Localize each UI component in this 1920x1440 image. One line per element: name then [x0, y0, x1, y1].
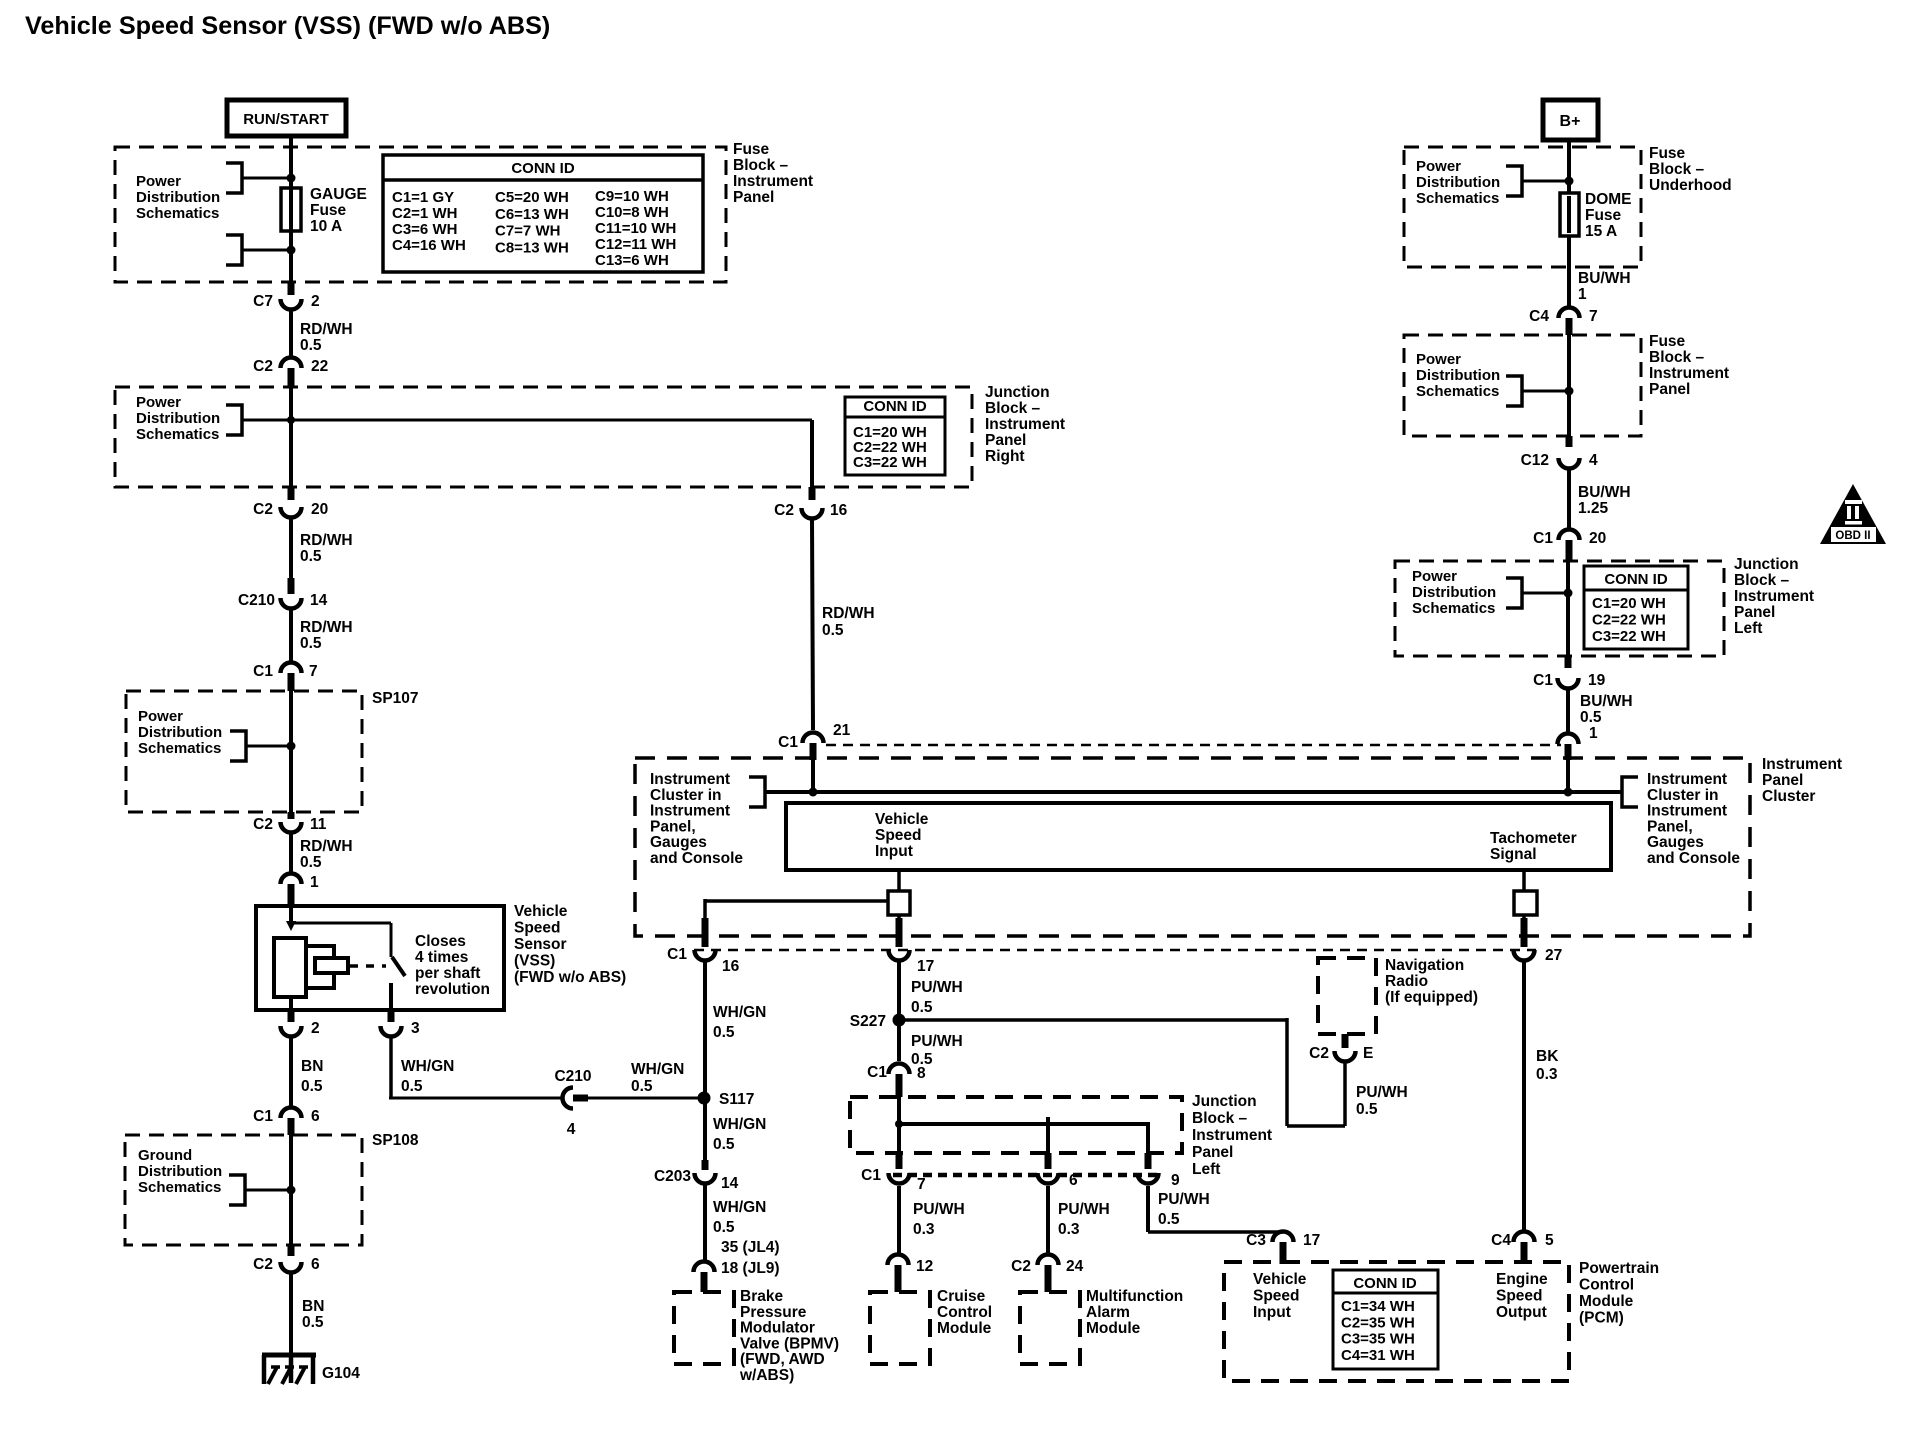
svg-text:RD/WH: RD/WH — [822, 605, 875, 622]
brake pressure modulator valve dashed box — [674, 1292, 734, 1364]
svg-text:C1=20 WH: C1=20 WH — [1592, 595, 1666, 612]
svg-text:Distribution: Distribution — [136, 410, 220, 427]
connector C2 pin 20 — [288, 487, 295, 500]
svg-text:C1=34 WH: C1=34 WH — [1341, 1298, 1415, 1315]
svg-text:Vehicle: Vehicle — [875, 811, 929, 828]
svg-text:GAUGE: GAUGE — [310, 186, 367, 203]
svg-text:and Console: and Console — [1647, 850, 1740, 867]
svg-text:0.5: 0.5 — [1158, 1211, 1180, 1228]
svg-text:C3=35 WH: C3=35 WH — [1341, 1331, 1415, 1348]
svg-text:4: 4 — [1589, 452, 1598, 469]
svg-text:Speed: Speed — [1496, 1288, 1543, 1305]
svg-text:27: 27 — [1545, 947, 1562, 964]
bracket: SP107 tap — [230, 731, 246, 761]
svg-text:Cluster in: Cluster in — [1647, 787, 1718, 804]
svg-text:0.5: 0.5 — [300, 548, 322, 565]
wire: cluster to C1-16 — [703, 899, 707, 920]
cluster internal bus — [765, 790, 1622, 794]
svg-text:Brake: Brake — [740, 1288, 783, 1305]
wire: C2-11 to VSS pin 1, RD/WH 0.5 — [289, 834, 293, 872]
svg-text:0.5: 0.5 — [300, 854, 322, 871]
svg-text:Distribution: Distribution — [1412, 584, 1496, 601]
svg-text:CONN ID: CONN ID — [1604, 571, 1668, 588]
svg-text:Gauges: Gauges — [1647, 834, 1704, 851]
wire: through JB left — [1566, 561, 1570, 656]
svg-text:Cluster: Cluster — [1762, 788, 1815, 805]
svg-text:Modulator: Modulator — [740, 1320, 815, 1337]
bracket: power distribution top tap — [226, 163, 242, 193]
svg-text:C12=11 WH: C12=11 WH — [595, 236, 676, 253]
svg-text:BN: BN — [302, 1298, 324, 1315]
bracket: power distribution bottom tap — [226, 235, 242, 265]
svg-text:Junction: Junction — [985, 384, 1050, 401]
wire: C210-14 to C1-7, RD/WH 0.5 — [289, 610, 293, 661]
svg-text:Distribution: Distribution — [136, 189, 220, 206]
sensor body — [274, 938, 306, 997]
svg-text:Module: Module — [1579, 1293, 1634, 1310]
fuse GAUGE 10 A — [281, 188, 301, 231]
svg-text:Instrument: Instrument — [1647, 803, 1727, 820]
svg-text:Radio: Radio — [1385, 973, 1428, 990]
CONN ID table (fuse block IP) — [383, 155, 703, 272]
svg-text:C1: C1 — [253, 1108, 273, 1125]
svg-text:BN: BN — [301, 1058, 323, 1075]
svg-text:18 (JL9): 18 (JL9) — [721, 1260, 780, 1277]
svg-text:1.25: 1.25 — [1578, 500, 1609, 517]
svg-text:G104: G104 — [322, 1365, 360, 1382]
svg-text:C6=13 WH: C6=13 WH — [495, 206, 569, 223]
svg-text:2: 2 — [311, 293, 320, 310]
navigation radio dashed box — [1318, 958, 1376, 1034]
svg-text:Sensor: Sensor — [514, 936, 567, 953]
svg-text:Cruise: Cruise — [937, 1288, 986, 1305]
svg-text:E: E — [1363, 1045, 1373, 1062]
svg-text:C8=13 WH: C8=13 WH — [495, 239, 569, 256]
svg-text:PU/WH: PU/WH — [1356, 1084, 1408, 1101]
connector cruise pin 12 — [888, 1255, 909, 1266]
wire: JB right internal feed to C2-16 branch — [242, 419, 812, 422]
svg-text:C4=16 WH: C4=16 WH — [392, 237, 466, 254]
svg-text:Instrument: Instrument — [733, 173, 813, 190]
svg-text:35 (JL4): 35 (JL4) — [721, 1239, 780, 1256]
wire: VSS internal feed with arrow — [289, 908, 293, 922]
wire: S227 branch to navigation radio — [899, 1018, 1287, 1022]
svg-text:Navigation: Navigation — [1385, 957, 1464, 974]
svg-text:Vehicle: Vehicle — [1253, 1271, 1307, 1288]
svg-text:DOME: DOME — [1585, 191, 1632, 208]
svg-text:Panel: Panel — [733, 189, 774, 206]
svg-text:WH/GN: WH/GN — [713, 1116, 766, 1133]
svg-text:C10=8 WH: C10=8 WH — [595, 204, 669, 221]
wire: through JB right box (left leg) — [289, 387, 293, 487]
wire: C2-16 to C1-21, RD/WH 0.5 — [812, 520, 813, 730]
svg-text:C1: C1 — [778, 734, 798, 751]
svg-text:7: 7 — [309, 663, 318, 680]
svg-text:C7=7 WH: C7=7 WH — [495, 223, 560, 240]
svg-text:Powertrain: Powertrain — [1579, 1260, 1659, 1277]
svg-text:Closes: Closes — [415, 933, 466, 950]
svg-text:Panel: Panel — [1762, 772, 1803, 789]
svg-text:0.5: 0.5 — [713, 1219, 735, 1236]
svg-text:7: 7 — [1589, 308, 1598, 325]
svg-text:Schematics: Schematics — [136, 205, 219, 222]
svg-text:C1: C1 — [867, 1064, 887, 1081]
svg-text:1: 1 — [1578, 286, 1587, 303]
svg-text:PU/WH: PU/WH — [1158, 1191, 1210, 1208]
svg-text:0.5: 0.5 — [301, 1078, 323, 1095]
svg-text:S227: S227 — [850, 1013, 886, 1030]
bracket: SP108 tap — [229, 1175, 245, 1205]
svg-text:B+: B+ — [1560, 113, 1581, 130]
svg-text:10 A: 10 A — [310, 218, 342, 235]
svg-text:Panel: Panel — [1649, 381, 1690, 398]
connector VSS pin 3 — [388, 1010, 395, 1022]
svg-text:PU/WH: PU/WH — [911, 1033, 963, 1050]
wire: 17 to S227, PU/WH 0.5 — [897, 962, 901, 1014]
wire: DOME fuse to C4-7, BU/WH 1 — [1567, 267, 1571, 306]
svg-text:CONN ID: CONN ID — [1353, 1275, 1417, 1292]
svg-text:C4: C4 — [1529, 308, 1549, 325]
svg-text:C5=20 WH: C5=20 WH — [495, 189, 569, 206]
connector C1 pin 6 — [281, 1108, 302, 1119]
connector C2 pin 16 — [809, 487, 816, 500]
wire: C12-4 to C1-20, BU/WH 1.25 — [1567, 470, 1571, 528]
connector C1 pin 7 (JB) — [896, 1153, 903, 1169]
wire: 27 to PCM C4-5, BK 0.3 — [1522, 962, 1526, 1230]
terminal box: vehicle speed input — [897, 870, 901, 891]
svg-text:0.5: 0.5 — [300, 635, 322, 652]
svg-text:0.3: 0.3 — [1058, 1221, 1080, 1238]
svg-text:Schematics: Schematics — [1416, 190, 1499, 207]
svg-text:Distribution: Distribution — [1416, 174, 1500, 191]
svg-text:Left: Left — [1192, 1161, 1220, 1178]
svg-text:C2: C2 — [253, 1256, 273, 1273]
junction block - instrument panel left dashed box (right column) — [1395, 561, 1724, 656]
wire: C2-6 to ground, BN 0.5 — [289, 1274, 293, 1357]
svg-text:Input: Input — [1253, 1304, 1291, 1321]
wire: through underhood box — [1567, 150, 1571, 267]
svg-text:Speed: Speed — [875, 827, 922, 844]
svg-text:C2: C2 — [1011, 1258, 1031, 1275]
connector C4 pin 7 — [1559, 308, 1580, 319]
svg-text:Instrument: Instrument — [1734, 588, 1814, 605]
connector C7 pin 2 — [288, 282, 295, 295]
svg-text:(PCM): (PCM) — [1579, 1310, 1624, 1327]
junction: bottom tap dot — [287, 246, 296, 255]
wire: C2-20 to C210-14, RD/WH 0.5 — [289, 519, 293, 578]
bracket: cluster left — [749, 777, 765, 807]
svg-text:0.5: 0.5 — [822, 622, 844, 639]
switch blade — [392, 957, 405, 976]
svg-text:Power: Power — [1412, 568, 1457, 585]
svg-text:revolution: revolution — [415, 981, 490, 998]
svg-text:0.5: 0.5 — [302, 1314, 324, 1331]
mechanical link dashed — [350, 964, 386, 968]
svg-text:Block –: Block – — [1734, 572, 1790, 589]
wire: C210-4 to S117, WH/GN 0.5 — [588, 1097, 704, 1100]
bracket: fuse block IP right tap — [1506, 376, 1522, 406]
svg-text:per shaft: per shaft — [415, 965, 480, 982]
svg-text:Power: Power — [1416, 158, 1461, 175]
svg-text:Left: Left — [1734, 620, 1762, 637]
svg-text:(If equipped): (If equipped) — [1385, 989, 1478, 1006]
svg-text:Tachometer: Tachometer — [1490, 830, 1577, 847]
svg-text:22: 22 — [311, 358, 328, 375]
svg-text:C1: C1 — [667, 946, 687, 963]
svg-text:20: 20 — [1589, 530, 1606, 547]
svg-text:12: 12 — [916, 1258, 933, 1275]
svg-text:Valve (BPMV): Valve (BPMV) — [740, 1335, 839, 1352]
svg-text:C2: C2 — [253, 358, 273, 375]
svg-text:Instrument: Instrument — [1647, 771, 1727, 788]
svg-text:0.3: 0.3 — [1536, 1066, 1558, 1083]
svg-text:Block –: Block – — [985, 400, 1041, 417]
svg-text:Output: Output — [1496, 1304, 1547, 1321]
svg-text:Panel: Panel — [985, 432, 1026, 449]
svg-text:1: 1 — [1589, 725, 1598, 742]
junction block - instrument panel right dashed box — [115, 387, 972, 487]
wire: VSS pin 3 down and right, WH/GN 0.5 — [389, 1038, 393, 1098]
svg-text:C2=22 WH: C2=22 WH — [1592, 612, 1666, 629]
svg-text:Gauges: Gauges — [650, 834, 707, 851]
svg-text:Distribution: Distribution — [138, 724, 222, 741]
wire: C7-2 to C2-22, RD/WH 0.5 — [289, 311, 293, 356]
bracket: JB right power tap — [226, 405, 242, 435]
bracket: underhood tap — [1506, 166, 1522, 196]
svg-text:6: 6 — [1069, 1172, 1078, 1189]
svg-text:S117: S117 — [719, 1091, 754, 1108]
fuse block - instrument panel dashed box — [115, 147, 726, 282]
svg-text:0.5: 0.5 — [401, 1078, 423, 1095]
splice S227 — [893, 1014, 906, 1027]
connector VSS pin 2 — [288, 1010, 295, 1022]
svg-text:Instrument: Instrument — [985, 416, 1065, 433]
connector JB pin 9 — [1145, 1153, 1152, 1169]
svg-text:11: 11 — [310, 816, 327, 833]
junction: top tap dot — [287, 174, 296, 183]
connector C3 pin 17 — [1273, 1232, 1294, 1243]
svg-text:4 times: 4 times — [415, 949, 468, 966]
svg-text:Schematics: Schematics — [1412, 600, 1495, 617]
svg-text:0.5: 0.5 — [1356, 1101, 1378, 1118]
splice pack SP108 dashed box — [125, 1135, 362, 1245]
svg-text:17: 17 — [917, 958, 934, 975]
svg-text:0.5: 0.5 — [713, 1024, 735, 1041]
svg-text:C13=6 WH: C13=6 WH — [595, 252, 669, 269]
bracket: JB left tap — [1506, 578, 1522, 608]
svg-text:C2=35 WH: C2=35 WH — [1341, 1314, 1415, 1331]
svg-text:20: 20 — [311, 501, 328, 518]
svg-text:6: 6 — [311, 1256, 320, 1273]
svg-text:Block –: Block – — [733, 157, 789, 174]
svg-text:Block –: Block – — [1649, 349, 1705, 366]
CONN ID table (JB left) — [1584, 566, 1688, 649]
svg-text:C3=22 WH: C3=22 WH — [853, 454, 927, 471]
svg-text:RD/WH: RD/WH — [300, 532, 353, 549]
wire: JB internal bus — [897, 1097, 901, 1153]
multifunction alarm module dashed box — [1020, 1292, 1080, 1364]
svg-text:0.5: 0.5 — [713, 1136, 735, 1153]
connector C1 pin 16 — [702, 918, 709, 947]
svg-text:Pressure: Pressure — [740, 1304, 807, 1321]
ground G104 — [262, 1353, 316, 1358]
svg-text:Instrument: Instrument — [650, 771, 730, 788]
svg-text:C2=1 WH: C2=1 WH — [392, 205, 457, 222]
connector C12 pin 4 — [1566, 436, 1573, 447]
svg-text:Instrument: Instrument — [1649, 365, 1729, 382]
connector C2 pin 22 — [281, 358, 302, 369]
svg-text:OBD II: OBD II — [1835, 530, 1870, 542]
CONN ID table (PCM) — [1333, 1270, 1438, 1369]
instrument panel cluster dashed box — [635, 758, 1750, 936]
svg-text:BK: BK — [1536, 1048, 1559, 1065]
connector C1 pin 20 — [1559, 530, 1580, 541]
svg-text:Fuse: Fuse — [310, 202, 347, 219]
junction: SP107 dot — [287, 742, 296, 751]
connector C1 pin 21 — [803, 733, 824, 743]
svg-text:C1: C1 — [1533, 530, 1553, 547]
svg-text:C3: C3 — [1246, 1232, 1266, 1249]
svg-text:6: 6 — [311, 1108, 320, 1125]
svg-text:CONN ID: CONN ID — [511, 160, 575, 177]
connector C4 pin 5 — [1514, 1232, 1535, 1243]
svg-text:SP108: SP108 — [372, 1132, 419, 1149]
svg-text:14: 14 — [310, 592, 328, 609]
wire: JB right to C2-16 — [810, 420, 814, 487]
svg-text:C1=1 GY: C1=1 GY — [392, 189, 454, 206]
svg-text:7: 7 — [917, 1176, 926, 1193]
svg-text:Schematics: Schematics — [138, 740, 221, 757]
wire: pin 2 to C1-6, BN 0.5 — [289, 1038, 293, 1106]
connector BPMV pin 18 — [694, 1262, 715, 1273]
wire: C1-21 into cluster — [811, 758, 815, 792]
svg-text:RD/WH: RD/WH — [300, 619, 353, 636]
svg-text:Right: Right — [985, 448, 1025, 465]
connector C210 pin 4 (inline) — [563, 1088, 574, 1109]
connector cluster pin 17 — [897, 915, 901, 920]
svg-text:RUN/START: RUN/START — [243, 111, 329, 128]
OBD II symbol — [1820, 484, 1886, 544]
svg-text:C203: C203 — [654, 1168, 691, 1185]
svg-text:C2: C2 — [774, 502, 794, 519]
svg-text:RD/WH: RD/WH — [300, 321, 353, 338]
svg-text:4: 4 — [567, 1121, 576, 1138]
terminal box: tachometer signal — [1522, 870, 1526, 891]
svg-text:Panel,: Panel, — [650, 818, 696, 835]
svg-text:Input: Input — [875, 843, 913, 860]
svg-text:Schematics: Schematics — [1416, 383, 1499, 400]
svg-text:C3=6 WH: C3=6 WH — [392, 221, 457, 238]
cluster function bar — [786, 803, 1611, 870]
svg-text:Engine: Engine — [1496, 1271, 1548, 1288]
svg-text:(FWD w/o ABS): (FWD w/o ABS) — [514, 969, 626, 986]
wire: through fuse block IP — [289, 150, 293, 282]
svg-text:Panel: Panel — [1734, 604, 1775, 621]
wire: C203-14 to BPMV, WH/GN 0.5 — [703, 1185, 707, 1260]
power source label RUN/START — [227, 100, 346, 136]
svg-text:C1: C1 — [253, 663, 273, 680]
junction block - instrument panel left dashed box (bottom) — [850, 1097, 1182, 1153]
svg-text:1: 1 — [310, 874, 319, 891]
connector line (cluster bottom, dashed) — [694, 949, 1536, 952]
svg-text:C2: C2 — [253, 816, 273, 833]
svg-text:C4=31 WH: C4=31 WH — [1341, 1347, 1415, 1364]
svg-text:Multifunction: Multifunction — [1086, 1288, 1183, 1305]
svg-text:C9=10 WH: C9=10 WH — [595, 188, 669, 205]
svg-text:Underhood: Underhood — [1649, 177, 1732, 194]
svg-text:Cluster in: Cluster in — [650, 787, 721, 804]
power source label B+ — [1543, 100, 1598, 140]
svg-text:C11=10 WH: C11=10 WH — [595, 220, 676, 237]
svg-text:24: 24 — [1066, 1258, 1084, 1275]
wire: S227 to C1-8, PU/WH 0.5 — [897, 1020, 901, 1061]
svg-text:PU/WH: PU/WH — [913, 1201, 965, 1218]
connector C1 pin 7 — [281, 663, 302, 674]
svg-text:WH/GN: WH/GN — [401, 1058, 454, 1075]
svg-text:16: 16 — [830, 502, 848, 519]
svg-text:15 A: 15 A — [1585, 223, 1617, 240]
connector C2 pin 11 — [288, 812, 295, 819]
svg-text:Ground: Ground — [138, 1147, 192, 1164]
svg-text:PU/WH: PU/WH — [911, 979, 963, 996]
svg-text:w/ABS): w/ABS) — [739, 1367, 794, 1384]
svg-text:Power: Power — [1416, 351, 1461, 368]
svg-text:C4: C4 — [1491, 1232, 1511, 1249]
wire: VSS internal switch branch — [289, 922, 391, 925]
svg-text:Panel,: Panel, — [1647, 818, 1693, 835]
svg-text:C12: C12 — [1521, 452, 1549, 469]
svg-text:Power: Power — [136, 394, 181, 411]
wire: JB9 to PCM C3-17, PU/WH 0.5 — [1146, 1186, 1150, 1232]
svg-text:Instrument: Instrument — [650, 803, 730, 820]
svg-text:Distribution: Distribution — [138, 1163, 222, 1180]
junction: feed crossing dot — [287, 416, 295, 424]
svg-text:Speed: Speed — [514, 920, 561, 937]
fuse block - instrument panel (right) dashed box — [1404, 335, 1641, 436]
svg-text:C210: C210 — [554, 1068, 591, 1085]
svg-text:BU/WH: BU/WH — [1578, 270, 1631, 287]
splice pack SP107 dashed box — [126, 691, 362, 812]
svg-text:Vehicle: Vehicle — [514, 903, 568, 920]
svg-text:Instrument: Instrument — [1192, 1127, 1272, 1144]
svg-text:Schematics: Schematics — [136, 426, 219, 443]
svg-text:WH/GN: WH/GN — [713, 1004, 766, 1021]
svg-text:Alarm: Alarm — [1086, 1304, 1130, 1321]
svg-text:Fuse: Fuse — [1649, 145, 1686, 162]
svg-text:Control: Control — [1579, 1277, 1634, 1294]
connector line (JB bottom, heavy dashed) — [893, 1173, 1160, 1178]
svg-text:SP107: SP107 — [372, 690, 419, 707]
svg-text:C2: C2 — [253, 501, 273, 518]
svg-text:Schematics: Schematics — [138, 1179, 221, 1196]
connector C210 pin 14 — [288, 578, 295, 594]
fuse block - underhood dashed box — [1404, 147, 1641, 267]
svg-text:Vehicle Speed Sensor (VSS) (FW: Vehicle Speed Sensor (VSS) (FWD w/o ABS) — [25, 12, 550, 40]
svg-text:Fuse: Fuse — [1585, 207, 1622, 224]
svg-text:C210: C210 — [238, 592, 275, 609]
wire: RUN/START to fuse block — [289, 136, 293, 150]
svg-text:Junction: Junction — [1192, 1093, 1257, 1110]
svg-text:PU/WH: PU/WH — [1058, 1201, 1110, 1218]
svg-text:C1: C1 — [861, 1167, 881, 1184]
wire: JB7 to cruise pin 12, PU/WH 0.3 — [897, 1186, 901, 1253]
svg-text:21: 21 — [833, 722, 851, 739]
connector C2 pin 6 — [288, 1245, 295, 1256]
cruise control module dashed box — [870, 1292, 930, 1364]
svg-text:BU/WH: BU/WH — [1580, 693, 1633, 710]
svg-text:Panel: Panel — [1192, 1144, 1233, 1161]
svg-text:Fuse: Fuse — [1649, 333, 1686, 350]
